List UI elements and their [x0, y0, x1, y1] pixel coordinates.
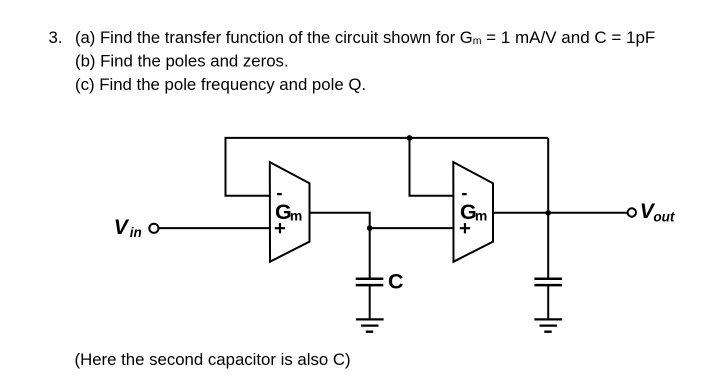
- input terminal circle: [149, 224, 158, 233]
- svg-text:3.: 3.: [49, 28, 63, 47]
- junction dot Vout node: [545, 210, 551, 216]
- wire node V1 to Gm2 non-inverting input: [370, 227, 454, 229]
- Gm1 inverting input minus sign: [277, 193, 282, 195]
- wire Gm1 output to node V1 and down to capacitor C1: [310, 213, 370, 278]
- wire Vin input to Gm1 non-inverting input: [159, 227, 270, 229]
- svg-text:(c) Find the pole frequency an: (c) Find the pole frequency and pole Q.: [75, 75, 366, 94]
- Gm2 inverting input minus sign: [462, 193, 467, 195]
- junction dot node V1: [367, 225, 373, 231]
- svg-text:m: m: [475, 208, 487, 224]
- transconductor Gm1 body: [270, 162, 310, 262]
- ground under C2: [534, 319, 562, 331]
- capacitor C1 plates: [356, 279, 384, 285]
- ground under C1: [356, 319, 384, 331]
- wire capacitor C1 to ground: [369, 285, 371, 319]
- wire Vout net vertical (top wire down to capacitor C2): [547, 138, 549, 278]
- Gm2 non-inverting input plus sign: [460, 223, 470, 233]
- svg-text:(b) Find the poles and zeros.: (b) Find the poles and zeros.: [75, 51, 289, 70]
- svg-text:in: in: [130, 225, 142, 240]
- svg-text:m: m: [290, 208, 302, 224]
- Gm1 non-inverting input plus sign: [275, 223, 285, 233]
- wire Vout net to output terminal: [548, 212, 627, 214]
- wire top feedback from Vout net to Gm1 inverting input: [226, 138, 549, 196]
- wire Gm2 output to Vout net: [493, 212, 548, 214]
- wire feedback tap to Gm2 inverting input: [410, 138, 454, 196]
- svg-text:(Here the second capacitor is: (Here the second capacitor is also C): [75, 350, 351, 369]
- output terminal circle: [628, 208, 636, 216]
- svg-text:(a) Find the transfer function: (a) Find the transfer function of the ci…: [75, 28, 655, 47]
- transconductor Gm2 body: [453, 162, 493, 262]
- junction dot on top feedback wire: [407, 135, 413, 141]
- svg-text:V: V: [114, 216, 130, 239]
- svg-text:out: out: [653, 209, 674, 224]
- capacitor C2 plates: [534, 279, 562, 285]
- wire capacitor C2 to ground: [547, 285, 549, 319]
- svg-text:C: C: [388, 269, 404, 293]
